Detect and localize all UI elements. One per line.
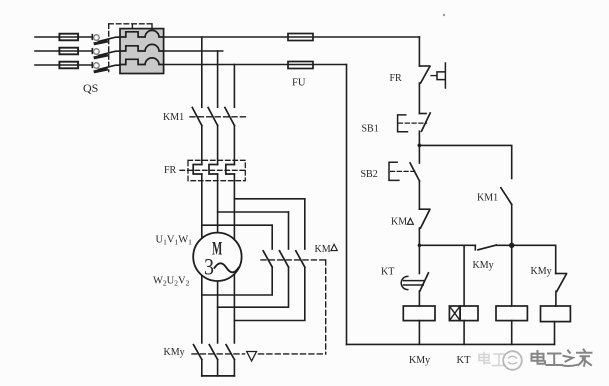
QS pole 2 hinge bbox=[94, 49, 100, 55]
KM1 linkage dashed bbox=[190, 116, 247, 118]
control rail right top bbox=[418, 37, 420, 66]
QS pole 1 hinge bbox=[94, 35, 100, 41]
star point bar bbox=[202, 375, 235, 377]
contactor KM1 pole 2 bbox=[208, 108, 218, 126]
wire delta tap W1 bbox=[234, 198, 304, 200]
wire pole3 mid bbox=[233, 126, 235, 165]
wire phase W drop bbox=[233, 65, 235, 108]
svg-text:KT: KT bbox=[457, 355, 472, 366]
watermark text dian bbox=[532, 351, 546, 364]
svg-text:FR: FR bbox=[164, 165, 177, 176]
svg-text:KMy: KMy bbox=[531, 266, 552, 277]
breaker QF row 3 element bbox=[120, 58, 164, 65]
FR heater element 1 bbox=[193, 165, 202, 175]
wire delta tap V1 bbox=[218, 211, 289, 213]
wire coil KT bottom bbox=[463, 321, 465, 345]
svg-text:KM1: KM1 bbox=[163, 112, 184, 123]
coil KM1 bbox=[496, 306, 527, 321]
FR heater element 3 bbox=[226, 165, 235, 175]
svg-text:U1V1W1: U1V1W1 bbox=[156, 235, 193, 247]
wire KM1 coil drop bbox=[511, 245, 513, 306]
svg-text:KM: KM bbox=[315, 244, 331, 255]
svg-text:KM1: KM1 bbox=[477, 193, 498, 204]
fuse FU1 bbox=[288, 34, 313, 41]
QS pole 1 blade bbox=[99, 37, 121, 41]
star-delta triangle symbol bbox=[247, 352, 257, 362]
contactor KMy pole 3 bbox=[226, 345, 234, 376]
breaker box QF bbox=[120, 29, 164, 74]
QS pole 3 jaw bbox=[95, 69, 106, 71]
QS pole 3 blade bbox=[99, 65, 121, 69]
SB1 button cap bbox=[398, 115, 408, 132]
watermark text zhi bbox=[563, 351, 578, 367]
node junction dot bbox=[509, 243, 514, 248]
contactor KM-delta pole B bbox=[218, 212, 289, 307]
wire pole1 mid bbox=[201, 126, 203, 165]
coil KM-delta bbox=[541, 306, 571, 322]
contactor KMy pole 1 bbox=[194, 345, 202, 376]
SB1 dashed plunger bbox=[399, 122, 427, 124]
KM-delta power label bbox=[315, 244, 338, 255]
svg-text:3: 3 bbox=[204, 255, 214, 280]
wire control bus bbox=[419, 244, 475, 246]
wire L2 input bbox=[35, 49, 92, 54]
wire coil KMy bottom bbox=[418, 321, 420, 345]
breaker QF row 2 element bbox=[120, 44, 164, 51]
node junction below SB1 bbox=[418, 144, 422, 148]
FR NC contact bbox=[419, 66, 429, 114]
wire L2 stub bbox=[164, 50, 223, 52]
contactor KM1 pole 1 bbox=[192, 108, 202, 126]
QS pole 1 jaw bbox=[95, 41, 106, 43]
wire phase U drop bbox=[201, 37, 203, 107]
svg-text:SB1: SB1 bbox=[362, 124, 379, 135]
wire pole2 to motor and KMy bbox=[217, 174, 219, 343]
wire pole3 to motor and KMy bbox=[233, 174, 235, 343]
wire pole2 mid bbox=[217, 126, 219, 165]
svg-text:QS: QS bbox=[83, 81, 98, 95]
FR dashed box bbox=[188, 160, 245, 180]
watermark faint glyphs bbox=[479, 353, 506, 366]
contactor KM1 aux NO contact bbox=[501, 188, 512, 246]
contactor KMy pole 2 bbox=[209, 345, 217, 376]
FR heater element 2 bbox=[209, 165, 218, 175]
contactor KM1 pole 3 bbox=[225, 108, 235, 126]
timer KT delayed NO contact bbox=[401, 273, 428, 306]
KMy linkage dashed bbox=[192, 353, 326, 355]
wire pole1 to motor and KMy bbox=[201, 174, 203, 343]
svg-text:FR: FR bbox=[390, 73, 403, 84]
svg-text:SB2: SB2 bbox=[361, 169, 378, 180]
KM-delta interlock label bbox=[391, 217, 413, 228]
coil KT bbox=[449, 306, 478, 321]
svg-text:KT: KT bbox=[381, 267, 394, 278]
control rail left bbox=[346, 65, 348, 345]
SB2 button cap bbox=[389, 162, 399, 180]
watermark text gong bbox=[547, 354, 563, 366]
contactor KMy NC interlock right bbox=[556, 245, 567, 306]
wire coil KM-delta bottom bbox=[554, 322, 556, 345]
wire L1 input bbox=[35, 35, 92, 40]
KM-delta NC interlock contact bbox=[419, 209, 429, 273]
contactor KMy aux NO contact horizontal bbox=[475, 245, 555, 250]
contactor KM-delta pole C bbox=[234, 199, 304, 321]
wire branch to KM1 aux bbox=[419, 145, 511, 178]
wire phase V drop bbox=[217, 51, 219, 107]
wire L3 input bbox=[35, 63, 92, 68]
wire L3 bus bbox=[164, 64, 347, 66]
pushbutton SB1 NC contact bbox=[419, 113, 430, 145]
mechanical dashed link vertical bbox=[325, 260, 327, 354]
pushbutton SB2 NO contact bbox=[410, 145, 419, 209]
contactor KM-delta pole A bbox=[202, 225, 272, 295]
FR trip dash bbox=[431, 75, 436, 77]
watermark text jia bbox=[577, 350, 592, 366]
motor M 3~ bbox=[193, 233, 241, 281]
svg-text:W2U2V2: W2U2V2 bbox=[153, 276, 190, 288]
svg-text:KMy: KMy bbox=[473, 260, 494, 271]
coil KMy bbox=[403, 306, 435, 321]
svg-text:KMy: KMy bbox=[164, 347, 185, 358]
QS pole 3 hinge bbox=[94, 63, 100, 69]
bottom bus bbox=[347, 343, 555, 345]
speck bbox=[443, 14, 445, 16]
QS pole 2 jaw bbox=[95, 55, 106, 57]
wire delta tap U1 bbox=[202, 224, 272, 226]
fuse L3 bbox=[59, 62, 78, 69]
svg-text:FU: FU bbox=[292, 78, 306, 89]
QS pole 2 blade bbox=[99, 51, 121, 55]
SB2 dashed plunger bbox=[391, 170, 416, 172]
QS linkage dashed bbox=[109, 24, 152, 72]
FR trip actuator bbox=[437, 63, 445, 88]
wire L1 bus bbox=[164, 36, 420, 38]
fuse L2 bbox=[59, 48, 78, 55]
fuse L1 bbox=[59, 34, 78, 41]
wire coil KM1 bottom bbox=[511, 321, 513, 345]
wire to KT coil bbox=[463, 245, 465, 306]
FR mid dashed line bbox=[180, 169, 245, 171]
watermark circle logo bbox=[503, 351, 522, 370]
fuse FU2 bbox=[288, 62, 313, 69]
KM-delta linkage dashed bbox=[261, 259, 326, 261]
svg-text:KMy: KMy bbox=[409, 355, 430, 366]
node bus junction bbox=[418, 244, 422, 248]
breaker QF row 1 element bbox=[120, 30, 164, 37]
svg-text:KM: KM bbox=[391, 217, 407, 228]
